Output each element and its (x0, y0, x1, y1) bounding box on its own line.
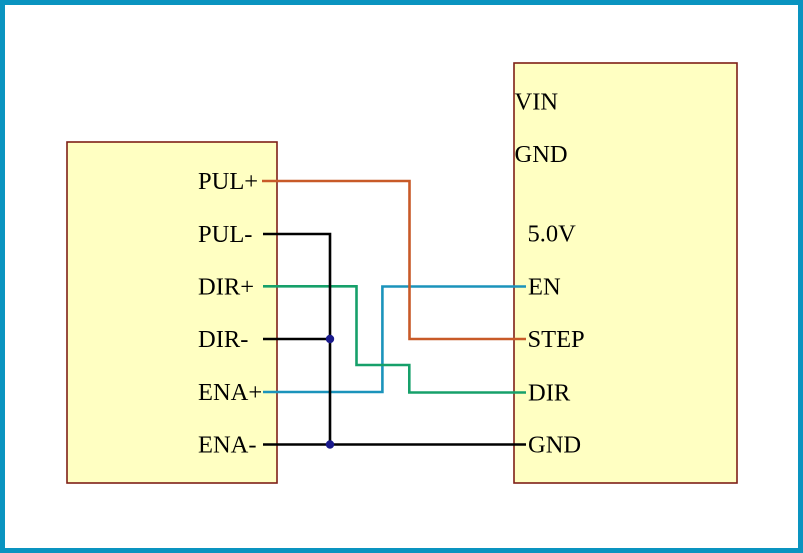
svg-text:GND: GND (528, 432, 581, 459)
svg-text:ENA+: ENA+ (198, 379, 262, 406)
svg-text:DIR-: DIR- (198, 326, 248, 353)
svg-text:EN: EN (528, 274, 561, 301)
svg-text:5.0V: 5.0V (528, 221, 577, 248)
svg-text:VIN: VIN (515, 89, 559, 116)
svg-text:DIR: DIR (528, 380, 571, 407)
svg-text:PUL+: PUL+ (198, 168, 258, 195)
svg-text:ENA-: ENA- (198, 432, 257, 459)
svg-text:DIR+: DIR+ (198, 274, 254, 301)
svg-text:GND: GND (515, 141, 568, 168)
svg-text:PUL-: PUL- (198, 221, 252, 248)
svg-text:STEP: STEP (528, 326, 585, 353)
